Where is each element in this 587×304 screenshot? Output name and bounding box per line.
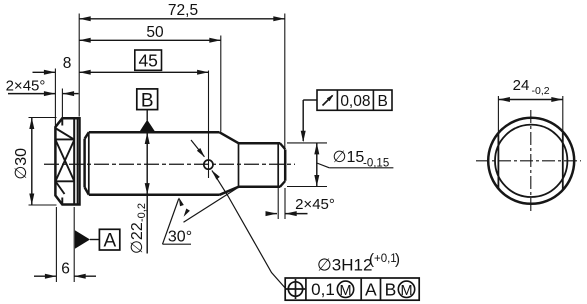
dimension O22 <box>129 133 150 255</box>
head facet line lower <box>55 180 74 182</box>
position frame <box>285 278 419 300</box>
svg-text:2×45°: 2×45° <box>295 196 335 213</box>
position M circle 2 <box>398 281 414 299</box>
svg-text:6: 6 <box>61 261 70 278</box>
svg-text:24: 24 <box>513 77 530 94</box>
head chamfer X line 2 <box>56 141 74 181</box>
svg-text:45: 45 <box>138 51 157 71</box>
svg-text:A: A <box>103 231 116 252</box>
extension line pin bottom right <box>287 186 327 188</box>
shaft chamfer edge line <box>88 132 90 194</box>
end view extension left <box>497 96 499 133</box>
extension line pin top right <box>287 142 327 144</box>
taper end line <box>238 143 240 187</box>
head chamfer stub top <box>61 118 63 125</box>
datum A box <box>99 229 119 251</box>
svg-text:M: M <box>400 283 412 299</box>
extension line head bottom <box>29 204 57 206</box>
svg-text:): ) <box>395 251 400 268</box>
hole circle O3 <box>204 160 213 169</box>
shaft bottom edge <box>89 194 220 197</box>
shaft left chamfer bottom <box>85 187 89 194</box>
extension line head left face upper <box>54 69 56 128</box>
end chamfer line <box>277 143 279 187</box>
angle 30 flag <box>163 197 193 245</box>
shaft top edge <box>89 131 220 134</box>
end view left flat <box>497 133 499 189</box>
svg-text:+0,1: +0,1 <box>374 253 397 265</box>
dimension O15 <box>314 143 319 187</box>
centerline main axis <box>44 163 295 165</box>
end view chamfer circle <box>495 125 567 197</box>
head chamfer stub bottom <box>61 198 63 205</box>
svg-text:B: B <box>378 93 388 110</box>
head inner vertical <box>76 119 78 204</box>
head chamfer X line 1 <box>56 141 74 181</box>
end chamfer top corner <box>280 143 285 149</box>
pin bottom edge <box>239 186 281 189</box>
dimension 6 <box>34 261 96 279</box>
svg-text:∅15: ∅15 <box>333 149 365 166</box>
shaft left end face <box>83 139 86 188</box>
datum A triangle <box>75 230 100 249</box>
svg-text:0,1: 0,1 <box>311 280 335 299</box>
pin top edge <box>239 142 281 145</box>
datum B triangle <box>140 110 155 132</box>
taper top edge <box>220 132 239 143</box>
svg-text:0,08: 0,08 <box>340 93 370 110</box>
end view outer circle <box>488 118 574 204</box>
svg-text:50: 50 <box>146 24 164 41</box>
svg-text:A: A <box>365 280 377 300</box>
hole leader to frame <box>212 170 285 288</box>
dimension 2x45 head <box>6 78 79 97</box>
shaft left chamfer top <box>85 132 89 139</box>
dimension 72,5 <box>79 2 285 21</box>
svg-text:B: B <box>385 280 397 300</box>
svg-text:∅30: ∅30 <box>13 148 30 180</box>
hex head outline <box>55 118 79 204</box>
extension line head left lower <box>55 207 57 282</box>
head washer face line <box>73 118 75 204</box>
svg-text:2×45°: 2×45° <box>6 78 46 95</box>
position datum B ref <box>385 280 397 300</box>
position symbol <box>286 279 305 299</box>
position datum A ref <box>365 280 377 300</box>
dimension 50 <box>79 24 221 43</box>
position tolerance value <box>311 280 335 299</box>
dimension 8 <box>33 55 72 75</box>
hole vertical axis line <box>208 71 210 179</box>
svg-text:-0,2: -0,2 <box>532 85 550 97</box>
runout leader <box>301 100 317 142</box>
runout value <box>340 93 370 110</box>
svg-text:∅22: ∅22 <box>129 222 146 254</box>
head chamfer arc top <box>56 129 74 140</box>
svg-text:M: M <box>339 283 351 299</box>
taper bottom edge <box>220 187 239 195</box>
end view extension right <box>562 96 564 133</box>
extension line end chamfer lower <box>277 188 279 219</box>
extension line head top <box>29 117 57 119</box>
end view right flat <box>562 133 564 189</box>
hole dimension arrow upper <box>191 140 205 157</box>
angle 30 leader line <box>184 189 237 223</box>
runout symbol <box>323 95 334 106</box>
end view horizontal centerline <box>476 160 581 162</box>
O3 hole label <box>317 251 400 275</box>
runout frame <box>317 90 392 110</box>
end chamfer bottom corner <box>280 181 285 187</box>
svg-text:∅3H12: ∅3H12 <box>317 256 372 275</box>
extension line right of head chamfer <box>78 14 80 117</box>
end view vertical centerline <box>530 110 532 212</box>
extension line part right end <box>284 14 286 150</box>
dimension 2x45 end <box>266 196 335 216</box>
O15 label <box>317 149 394 170</box>
head facet line upper <box>55 138 74 140</box>
runout datum ref <box>378 93 388 110</box>
extension line taper start <box>220 36 222 132</box>
svg-text:8: 8 <box>63 55 72 72</box>
shaft end face <box>284 150 287 181</box>
svg-text:72,5: 72,5 <box>168 2 198 19</box>
extension line head chamfer <box>61 89 63 119</box>
dimension 45 boxed <box>79 50 208 75</box>
extension line end face lower <box>284 188 286 219</box>
dimension 24 <box>498 77 562 102</box>
head chamfer arc bottom <box>56 182 65 194</box>
svg-text:-0,2: -0,2 <box>136 203 148 222</box>
svg-text:B: B <box>141 91 154 112</box>
position M circle 1 <box>337 281 353 299</box>
extension line head right lower <box>73 207 75 282</box>
datum B box <box>137 89 158 112</box>
dimension O30 <box>13 118 34 206</box>
svg-text:30°: 30° <box>168 229 192 246</box>
